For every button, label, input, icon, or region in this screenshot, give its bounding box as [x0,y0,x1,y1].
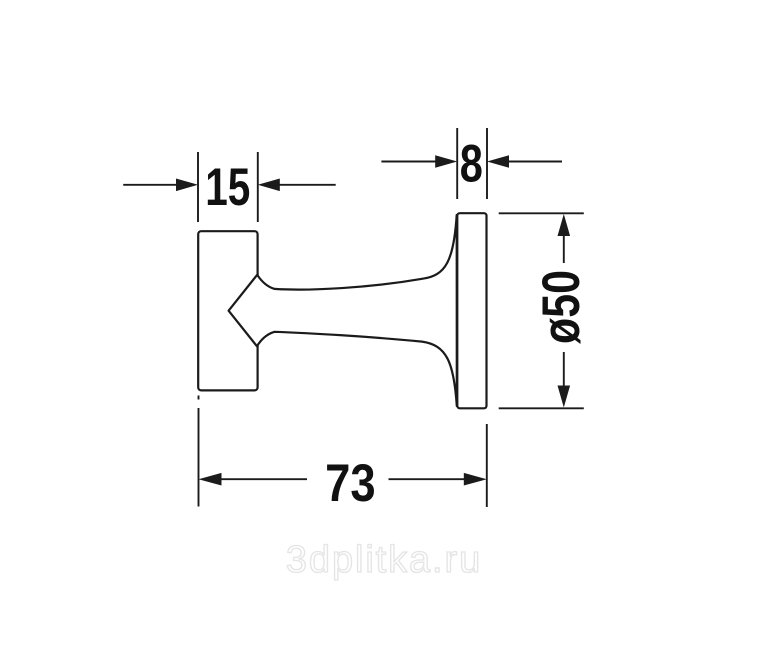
svg-text:8: 8 [460,135,483,194]
svg-text:73: 73 [325,454,376,513]
hook stem (arrow-shaped shaft) [229,215,457,406]
dim ø50: up arrowhead [558,214,571,236]
dim 8: right arrowhead [487,155,509,168]
dim 8: extension line right [486,128,488,199]
dim 73: right leader line [389,478,467,480]
dim 8: left arrowhead [435,155,457,168]
dim 8: left leader line [381,161,437,163]
svg-text:15: 15 [205,158,250,217]
dim 73: left arrowhead [199,473,222,486]
dim ø50: lower dimension line [563,352,565,392]
hook knob (front rectangle) [198,231,257,390]
wall plate (rosette, side view) [457,213,486,408]
dim ø50: down arrowhead [558,386,571,408]
dim 15: extension line right [257,152,259,222]
dim 73: extension line left [198,408,200,507]
dim 15: right leader line [278,184,336,186]
dim 73: left leader line [219,478,307,480]
dim ø50: upper dimension line [563,230,565,263]
dim ø50: bottom extension line [499,407,584,409]
dim 15: right arrowhead [258,179,280,192]
dim 8: right leader line [507,161,562,163]
dim 15: extension line left [197,152,199,222]
svg-text:ø50: ø50 [532,270,591,344]
dim 73: right arrowhead [464,473,487,486]
svg-text:3dplitka.ru: 3dplitka.ru [286,539,482,581]
dim 73: extension line right [486,424,488,507]
dim 15: left leader line [123,184,178,186]
dim 73: extension line left tick [198,396,200,400]
dim 8: extension line left [456,128,458,199]
dim ø50: top extension line [499,212,584,214]
dim 15: left arrowhead [176,179,198,192]
